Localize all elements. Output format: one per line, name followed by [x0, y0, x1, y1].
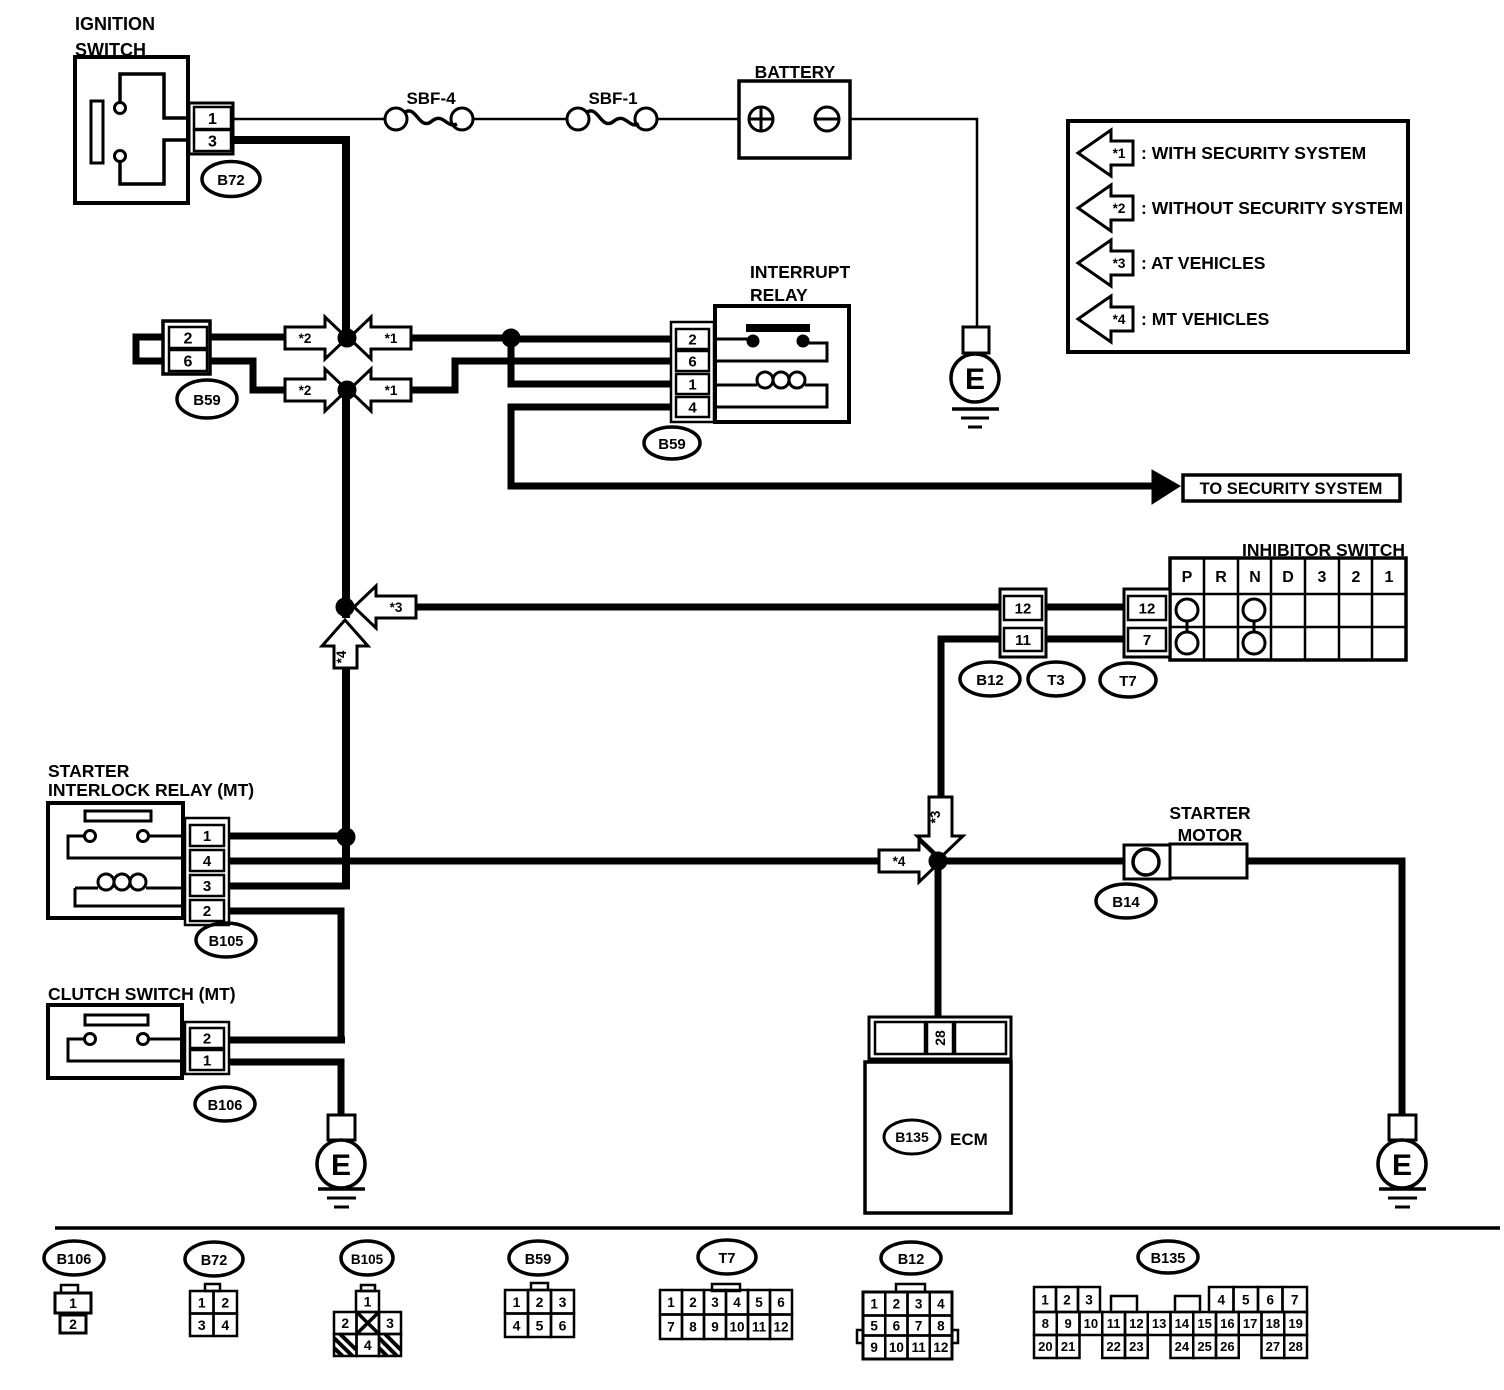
- svg-text:10: 10: [1084, 1316, 1098, 1331]
- connector label B12 (pinout): [881, 1242, 941, 1274]
- svg-text:BATTERY: BATTERY: [755, 62, 836, 82]
- connector label B14: [1096, 884, 1156, 918]
- wire: *1 arrow to node B (row1): [408, 335, 513, 342]
- wire: ignition pin3 right then down to node A: [231, 136, 350, 144]
- svg-text:N: N: [1249, 569, 1261, 586]
- connector label B59 (interrupt relay): [644, 427, 700, 459]
- connector label B106: [195, 1087, 255, 1121]
- svg-text:B106: B106: [208, 1098, 243, 1114]
- ground E (starter motor): [1389, 1115, 1416, 1140]
- node A junction: [338, 329, 356, 347]
- wire: clutch switch pin2 to vertical line: [229, 1037, 345, 1044]
- connector B105 pinout: [361, 1285, 375, 1291]
- svg-text:B135: B135: [895, 1129, 929, 1145]
- connector label B135: [884, 1120, 940, 1154]
- svg-text:12: 12: [1129, 1316, 1143, 1331]
- svg-text:2: 2: [893, 1297, 901, 1312]
- svg-text:1: 1: [203, 828, 211, 845]
- svg-text:TO SECURITY SYSTEM: TO SECURITY SYSTEM: [1200, 480, 1383, 498]
- svg-text:1: 1: [69, 1295, 77, 1311]
- arrow to security system: [1152, 470, 1180, 504]
- svg-text:D: D: [1282, 569, 1294, 586]
- svg-text:: MT VEHICLES: : MT VEHICLES: [1141, 309, 1269, 329]
- arrow *3 (down, AT vehicles from inhibitor): [917, 797, 963, 858]
- svg-text:12: 12: [933, 1340, 948, 1355]
- svg-text:5: 5: [536, 1317, 544, 1333]
- svg-text:T7: T7: [1119, 673, 1137, 690]
- svg-text:5: 5: [1242, 1292, 1250, 1307]
- svg-text:10: 10: [889, 1340, 904, 1355]
- node D junction: [336, 598, 354, 616]
- node E junction: [337, 828, 355, 846]
- connector label B106 (pinout): [44, 1241, 104, 1275]
- svg-text:3: 3: [915, 1297, 923, 1312]
- svg-text:2: 2: [1063, 1292, 1071, 1307]
- separator line: [55, 1226, 1500, 1230]
- svg-text:MOTOR: MOTOR: [1178, 825, 1243, 845]
- svg-text:8: 8: [689, 1320, 697, 1335]
- wire: connector B12 pin11 left then down to *3 arrow: [941, 639, 1002, 802]
- svg-text:RELAY: RELAY: [750, 285, 808, 305]
- svg-text:T7: T7: [719, 1251, 736, 1267]
- arrow *3 (AT vehicles, to inhibitor switch): [354, 586, 416, 628]
- svg-text:1: 1: [1041, 1292, 1049, 1307]
- wire: starter interlock relay pin4 to *4 arrow near starter: [229, 858, 881, 865]
- wire: connector B12 pin11 to connector T7 pin7: [1044, 636, 1126, 643]
- node B junction: [502, 329, 520, 347]
- svg-text:*4: *4: [1113, 312, 1126, 327]
- svg-text:4: 4: [1217, 1292, 1225, 1307]
- svg-text:8: 8: [937, 1318, 945, 1333]
- svg-text:11: 11: [1015, 632, 1031, 649]
- svg-text:9: 9: [711, 1320, 719, 1335]
- connector B72 pinout: [205, 1284, 220, 1291]
- wire: node C down main line to node D: [342, 394, 350, 618]
- svg-text:7: 7: [1291, 1292, 1299, 1307]
- battery - terminal: [815, 107, 839, 131]
- svg-text:2: 2: [69, 1316, 77, 1332]
- connector B59 pins 2,6 (left): [163, 321, 210, 374]
- svg-text:ECM: ECM: [950, 1130, 988, 1149]
- svg-text:4: 4: [733, 1295, 741, 1310]
- connector label B59 (pinout): [509, 1241, 567, 1275]
- connector B105 pins 1,4,3,2: [185, 818, 229, 925]
- svg-text:3: 3: [711, 1295, 719, 1310]
- ground E (battery): [963, 327, 989, 353]
- wire: node B down then right to interrupt relay pin1: [511, 338, 678, 384]
- svg-text:B59: B59: [525, 1252, 552, 1268]
- svg-text:1: 1: [870, 1297, 878, 1312]
- connector B135 pin 28 strip: [869, 1017, 1011, 1059]
- svg-text:INTERRUPT: INTERRUPT: [750, 262, 850, 282]
- inhibitor switch contacts P column: [1176, 599, 1198, 621]
- connector label B72: [202, 162, 260, 197]
- svg-text:4: 4: [688, 399, 697, 416]
- connector label B105 (pinout): [341, 1241, 393, 1275]
- connector label B105: [196, 923, 256, 957]
- starter interlock relay contact wiring: [149, 835, 192, 838]
- svg-text:19: 19: [1288, 1316, 1302, 1331]
- svg-text:: WITHOUT SECURITY SYSTEM: : WITHOUT SECURITY SYSTEM: [1141, 198, 1403, 218]
- svg-text:3: 3: [203, 878, 211, 895]
- connector B12/T3 pins 12,11: [1000, 589, 1046, 657]
- svg-text:3: 3: [386, 1315, 394, 1331]
- svg-text:P: P: [1182, 569, 1193, 586]
- connector label B59 (left): [177, 380, 237, 418]
- svg-text:B106: B106: [57, 1252, 92, 1268]
- svg-text:IGNITION: IGNITION: [75, 14, 155, 34]
- legend box: [1068, 121, 1408, 352]
- svg-text:1: 1: [198, 1294, 206, 1310]
- svg-text:26: 26: [1220, 1339, 1234, 1354]
- wire: B59 pin2 jumper U-loop to pin6: [136, 337, 168, 361]
- svg-text:SBF-4: SBF-4: [406, 89, 456, 108]
- ECM box: [865, 1062, 1011, 1213]
- svg-text:6: 6: [893, 1318, 901, 1333]
- svg-text:*1: *1: [1113, 146, 1126, 161]
- svg-text:*1: *1: [385, 331, 398, 346]
- svg-text:2: 2: [203, 903, 211, 920]
- svg-text:28: 28: [932, 1030, 948, 1046]
- svg-text:E: E: [965, 363, 985, 396]
- connector label B72 (pinout): [185, 1242, 243, 1276]
- wire: ignition pin1 to fuse SBF-4: [233, 118, 387, 121]
- svg-text:SBF-1: SBF-1: [588, 89, 637, 108]
- svg-text:6: 6: [777, 1295, 785, 1310]
- svg-text:*2: *2: [1113, 201, 1126, 216]
- wire: connector B12 pin12 to connector T7 pin12: [1044, 604, 1126, 611]
- wire: fuse SBF-4 to fuse SBF-1: [473, 118, 568, 121]
- svg-text:3: 3: [208, 133, 217, 150]
- svg-text:4: 4: [364, 1337, 372, 1353]
- svg-text:STARTER: STARTER: [1169, 803, 1251, 823]
- svg-text:1: 1: [688, 376, 696, 393]
- connector B12 pinout: [896, 1284, 925, 1292]
- svg-text:B14: B14: [1112, 894, 1140, 911]
- wire: *1 arrow (row2) right, up, to interrupt relay pin6: [408, 361, 678, 390]
- connector B72 pins 1,3: [189, 103, 233, 154]
- svg-text:*2: *2: [299, 331, 312, 346]
- svg-text:7: 7: [915, 1318, 923, 1333]
- svg-text:6: 6: [184, 353, 193, 370]
- legend arrow *2: [1078, 185, 1133, 231]
- wire: below *4 arrow down to starter interlock node E: [342, 667, 350, 888]
- wire: node B to interrupt relay pin2: [507, 336, 678, 343]
- clutch switch contact points: [85, 1034, 96, 1045]
- svg-text:B59: B59: [658, 436, 686, 453]
- svg-text:12: 12: [773, 1320, 788, 1335]
- arrow *2 (row2): [285, 369, 347, 411]
- svg-text:4: 4: [937, 1297, 945, 1312]
- connector B135 pinout: [1034, 1287, 1056, 1312]
- svg-text:4: 4: [203, 853, 212, 870]
- svg-text:6: 6: [688, 353, 696, 370]
- svg-text:7: 7: [1143, 632, 1151, 649]
- interrupt relay contact points: [748, 336, 758, 346]
- svg-text:*2: *2: [299, 383, 312, 398]
- svg-text:20: 20: [1038, 1339, 1052, 1354]
- to security system box: [1183, 475, 1400, 501]
- starter interlock relay coil: [98, 874, 114, 890]
- wire: node D (*3) right to connector B12 pin12: [408, 604, 1002, 611]
- svg-text:15: 15: [1197, 1316, 1211, 1331]
- interrupt relay coil: [757, 372, 773, 388]
- svg-text:2: 2: [203, 1030, 211, 1047]
- arrow *1 (row1): [349, 317, 411, 359]
- svg-text:2: 2: [536, 1294, 544, 1310]
- wire: starter interlock relay pin1 to node E: [229, 833, 346, 840]
- svg-text:*4: *4: [893, 854, 906, 869]
- svg-text:E: E: [331, 1149, 351, 1182]
- node C junction: [338, 381, 356, 399]
- wire: fuse SBF-1 to battery +: [657, 118, 740, 121]
- connector T7 pins 12,7: [1124, 589, 1170, 657]
- svg-text:28: 28: [1288, 1339, 1302, 1354]
- connector label B135 (pinout): [1138, 1241, 1198, 1273]
- svg-text:6: 6: [1266, 1292, 1274, 1307]
- svg-text:1: 1: [667, 1295, 675, 1310]
- svg-text:*3: *3: [1113, 256, 1126, 271]
- svg-text:11: 11: [1107, 1316, 1121, 1331]
- svg-text:B105: B105: [209, 934, 244, 950]
- svg-text:18: 18: [1266, 1316, 1280, 1331]
- svg-text:7: 7: [667, 1320, 675, 1335]
- svg-text:1: 1: [208, 111, 217, 128]
- svg-text:1: 1: [203, 1052, 211, 1069]
- svg-text:9: 9: [870, 1340, 878, 1355]
- svg-text:24: 24: [1175, 1339, 1190, 1354]
- connector label T3: [1028, 662, 1084, 696]
- svg-text:B105: B105: [351, 1252, 384, 1267]
- ignition switch internal wire to pin3: [120, 140, 193, 184]
- svg-text:B12: B12: [898, 1252, 925, 1268]
- connector B106 pins 2,1: [185, 1022, 229, 1074]
- svg-text:12: 12: [1139, 600, 1156, 617]
- svg-text:R: R: [1215, 569, 1227, 586]
- svg-text:12: 12: [1015, 600, 1032, 617]
- svg-text:2: 2: [688, 331, 696, 348]
- svg-text:4: 4: [513, 1317, 521, 1333]
- svg-text:11: 11: [752, 1320, 767, 1335]
- svg-text:3: 3: [198, 1317, 206, 1333]
- ignition switch contact top: [115, 103, 126, 114]
- svg-text:6: 6: [559, 1317, 567, 1333]
- svg-text:1: 1: [1385, 569, 1394, 586]
- legend arrow *4: [1078, 296, 1133, 342]
- svg-text:11: 11: [911, 1340, 926, 1355]
- svg-text:*3: *3: [390, 600, 403, 615]
- arrow *1 (row2): [349, 369, 411, 411]
- svg-text:22: 22: [1106, 1339, 1120, 1354]
- wire: interrupt relay pin4 left, down, right to security system: [511, 407, 1152, 486]
- svg-text:: AT VEHICLES: : AT VEHICLES: [1141, 253, 1265, 273]
- clutch switch contact bar: [85, 1015, 148, 1025]
- wire: battery - to ground, right then down: [849, 119, 977, 327]
- svg-text:2: 2: [341, 1315, 349, 1331]
- svg-text:: WITH SECURITY SYSTEM: : WITH SECURITY SYSTEM: [1141, 143, 1366, 163]
- svg-text:3: 3: [559, 1294, 567, 1310]
- connector label B12: [960, 662, 1020, 696]
- svg-text:INTERLOCK RELAY (MT): INTERLOCK RELAY (MT): [48, 780, 254, 800]
- wire: B59 pin2 to *2 arrow (row1): [207, 334, 290, 341]
- svg-text:B135: B135: [1151, 1251, 1186, 1267]
- svg-text:STARTER: STARTER: [48, 761, 130, 781]
- wire: B59 pin6 right, down, to *2 arrow (row2): [209, 361, 290, 390]
- svg-text:4: 4: [221, 1317, 229, 1333]
- arrow *4 (MT vehicles, down main line): [322, 620, 368, 668]
- svg-text:23: 23: [1129, 1339, 1143, 1354]
- svg-text:25: 25: [1197, 1339, 1211, 1354]
- svg-text:1: 1: [513, 1294, 521, 1310]
- ignition switch contact bottom: [115, 151, 126, 162]
- connector T7 pinout: [712, 1284, 740, 1291]
- wire: starter interlock relay pin3 to main line: [229, 883, 350, 890]
- legend arrow *1: [1078, 130, 1133, 176]
- svg-text:2: 2: [1352, 569, 1361, 586]
- svg-text:B72: B72: [217, 172, 245, 189]
- svg-text:27: 27: [1266, 1339, 1280, 1354]
- svg-text:*3: *3: [928, 810, 943, 823]
- wire: node F down to ECM pin28: [935, 864, 942, 1020]
- connector B59 pinout: [531, 1283, 548, 1290]
- svg-text:1: 1: [364, 1294, 372, 1310]
- node F junction: [929, 852, 947, 870]
- svg-text:5: 5: [870, 1318, 878, 1333]
- svg-text:2: 2: [184, 330, 193, 347]
- arrow *2 (row1, with/without security split): [285, 317, 347, 359]
- legend arrow *3: [1078, 240, 1133, 286]
- wire: node F to starter motor: [941, 858, 1126, 865]
- connector B59 pins 2,6,1,4 (interrupt relay): [671, 322, 714, 422]
- svg-text:14: 14: [1175, 1316, 1190, 1331]
- svg-text:10: 10: [729, 1320, 744, 1335]
- interrupt relay contact wiring: [711, 338, 748, 341]
- svg-text:B59: B59: [193, 392, 221, 409]
- svg-text:E: E: [1392, 1149, 1412, 1182]
- connector label T7: [1100, 663, 1156, 697]
- svg-text:21: 21: [1061, 1339, 1075, 1354]
- battery + terminal: [749, 107, 773, 131]
- svg-text:3: 3: [1318, 569, 1327, 586]
- starter interlock relay contact bar: [85, 811, 151, 821]
- svg-text:CLUTCH SWITCH (MT): CLUTCH SWITCH (MT): [48, 984, 236, 1004]
- svg-text:2: 2: [221, 1294, 229, 1310]
- inhibitor switch contacts N column: [1243, 599, 1265, 621]
- svg-text:16: 16: [1220, 1316, 1234, 1331]
- svg-text:*1: *1: [385, 383, 398, 398]
- ignition switch key bar: [91, 101, 103, 163]
- svg-text:8: 8: [1042, 1316, 1049, 1331]
- svg-text:13: 13: [1152, 1316, 1166, 1331]
- starter interlock relay contact points: [85, 831, 96, 842]
- connector label T7 (pinout): [698, 1240, 756, 1274]
- wire: clutch switch pin1 right then down to ground: [229, 1062, 341, 1115]
- ignition switch internal wire to pin1: [120, 74, 193, 118]
- interrupt relay contact bar: [746, 324, 810, 332]
- svg-text:17: 17: [1243, 1316, 1257, 1331]
- wire: starter motor right then down to ground: [1246, 861, 1402, 1115]
- clutch switch contact wiring: [149, 1038, 192, 1041]
- connector B106 pinout: [61, 1285, 78, 1293]
- arrow *4 (right, MT vehicles from interlock relay): [879, 840, 941, 882]
- ground E (clutch switch): [328, 1115, 355, 1140]
- svg-text:B12: B12: [976, 672, 1004, 689]
- svg-text:*4: *4: [334, 650, 349, 663]
- svg-text:2: 2: [689, 1295, 697, 1310]
- svg-text:5: 5: [755, 1295, 763, 1310]
- svg-text:T3: T3: [1047, 672, 1065, 689]
- svg-text:9: 9: [1065, 1316, 1072, 1331]
- wire: starter interlock relay pin2 right then down: [229, 911, 341, 1040]
- svg-text:3: 3: [1085, 1292, 1093, 1307]
- svg-text:B72: B72: [201, 1253, 228, 1269]
